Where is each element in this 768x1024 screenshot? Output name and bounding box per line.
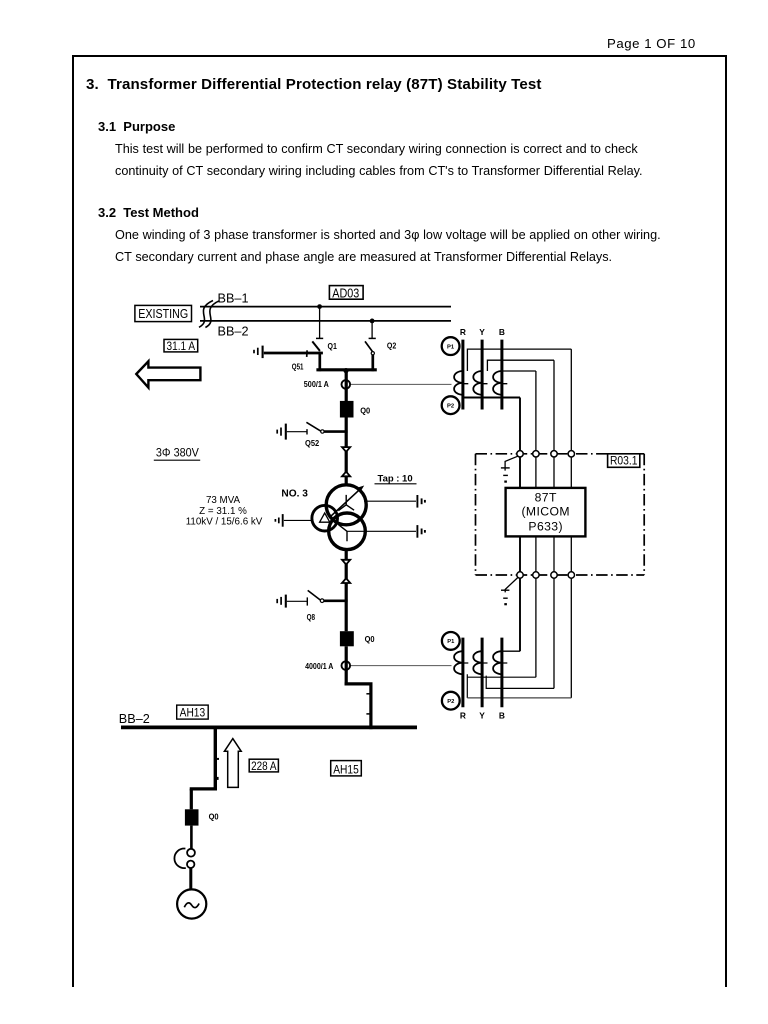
svg-text:AH15: AH15 bbox=[333, 762, 359, 776]
svg-text:R03.1: R03.1 bbox=[610, 454, 638, 468]
svg-text:Q1: Q1 bbox=[328, 341, 338, 351]
svg-text:BB–2: BB–2 bbox=[218, 324, 249, 338]
svg-text:AD03: AD03 bbox=[332, 285, 359, 300]
svg-text:4000/1 A: 4000/1 A bbox=[305, 662, 333, 671]
svg-text:Tap : 10: Tap : 10 bbox=[378, 474, 413, 485]
svg-text:500/1 A: 500/1 A bbox=[304, 380, 329, 389]
svg-text:(MICOM: (MICOM bbox=[521, 505, 569, 519]
svg-text:87T: 87T bbox=[535, 490, 557, 504]
svg-text:73 MVA: 73 MVA bbox=[206, 495, 241, 506]
svg-text:R: R bbox=[460, 327, 466, 337]
svg-text:P633): P633) bbox=[528, 519, 563, 533]
svg-text:P2: P2 bbox=[447, 699, 454, 705]
svg-text:Y: Y bbox=[479, 711, 485, 721]
svg-text:B: B bbox=[499, 327, 505, 337]
svg-text:NO. 3: NO. 3 bbox=[281, 488, 308, 499]
svg-text:Q51: Q51 bbox=[292, 362, 304, 372]
svg-text:R: R bbox=[460, 711, 466, 721]
svg-text:Q0: Q0 bbox=[365, 634, 375, 644]
svg-text:P1: P1 bbox=[447, 344, 455, 350]
svg-text:P2: P2 bbox=[447, 404, 454, 410]
svg-text:3Φ 380V: 3Φ 380V bbox=[156, 446, 199, 460]
svg-text:BB–2: BB–2 bbox=[119, 712, 150, 726]
svg-text:AH13: AH13 bbox=[180, 706, 206, 720]
svg-text:228 A: 228 A bbox=[251, 759, 277, 773]
svg-text:Z = 31.1 %: Z = 31.1 % bbox=[199, 506, 247, 517]
svg-text:P1: P1 bbox=[447, 639, 455, 645]
svg-text:110kV / 15/6.6 kV: 110kV / 15/6.6 kV bbox=[186, 516, 263, 527]
svg-text:Q0: Q0 bbox=[209, 812, 219, 822]
svg-text:Q0: Q0 bbox=[360, 405, 370, 415]
svg-text:EXISTING: EXISTING bbox=[138, 307, 188, 321]
svg-text:BB–1: BB–1 bbox=[218, 292, 249, 306]
svg-text:Q52: Q52 bbox=[305, 438, 319, 448]
svg-text:Q2: Q2 bbox=[387, 341, 397, 351]
svg-text:B: B bbox=[499, 711, 505, 721]
svg-text:Y: Y bbox=[479, 327, 485, 337]
svg-text:31.1 A: 31.1 A bbox=[167, 339, 196, 353]
svg-text:Q8: Q8 bbox=[307, 612, 316, 622]
